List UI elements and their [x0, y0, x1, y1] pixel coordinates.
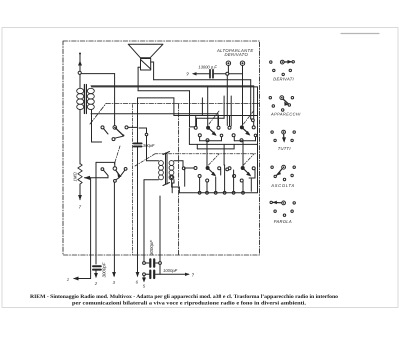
svg-text:300pF: 300pF [143, 143, 155, 148]
position diagram APPARECCHI [269, 96, 294, 111]
T1 primary bottom wire to potentiometer [79, 110, 81, 165]
switch S2 [96, 162, 127, 264]
svg-text:PAROLA: PAROLA [274, 219, 292, 224]
T2 connection wires [139, 128, 185, 262]
capacitor C 300pF [134, 143, 142, 277]
svg-text:DERIVATO: DERIVATO [225, 52, 249, 57]
caption [30, 294, 338, 307]
svg-text:?: ? [186, 72, 189, 78]
wire node A to switch S1 [81, 74, 114, 126]
svg-text:?: ? [192, 272, 195, 277]
svg-text:APPARECCHI: APPARECCHI [270, 112, 301, 117]
switch bank bottom bus [170, 176, 257, 193]
speaker terminals (ALTOPARLANTE DERIVATO) [226, 61, 245, 126]
potentiometer R 1M [78, 162, 115, 200]
speaker wires [138, 62, 253, 119]
svg-text:per comunicazioni bilaterali a: per comunicazioni bilaterali a viva voce… [72, 301, 307, 307]
capacitor C 13000pF [192, 70, 243, 78]
switch S1 [101, 98, 138, 143]
left vertical wires to bottom terminals [73, 178, 116, 281]
transformer T1 [77, 85, 95, 114]
value label 3000pF (right, rotated) [149, 240, 154, 255]
svg-text:ASCOLTA: ASCOLTA [270, 183, 295, 188]
position diagram ASCOLTA [271, 165, 296, 180]
transformer T2 [159, 152, 174, 186]
wafer bottom contact row [198, 170, 251, 194]
svg-text:3000pF: 3000pF [102, 262, 107, 277]
position diagram PAROLA [270, 201, 295, 217]
capacitor C 3000pF (left) [93, 266, 101, 278]
svg-text:DERIVATI: DERIVATI [273, 77, 294, 82]
speaker LS [128, 44, 163, 70]
capacitor C 1000pF (right pair, bottom) [142, 271, 190, 283]
inner unit dashed border [90, 104, 259, 256]
outer chassis dash-dot border [63, 41, 260, 255]
position diagram DERIVATI [270, 60, 295, 76]
position diagram TUTTI [271, 130, 296, 143]
long wires from T1 secondary into switch unit [91, 86, 258, 193]
rotary wafer SW-D (bottom-right) [228, 166, 255, 182]
antenna terminal [78, 53, 82, 89]
mechanical coupling dash-dot lines [114, 105, 256, 255]
wire T1 secondary bottom to S2 [92, 110, 102, 142]
rotary wafer SW-A (top-left) [194, 126, 220, 142]
value label 3000pF (left, rotated) [102, 262, 107, 277]
header rule fragment [341, 33, 379, 35]
svg-text:13000 p.F: 13000 p.F [198, 64, 217, 69]
rotary wafer SW-B (top-right) [228, 125, 255, 141]
svg-text:1MΩ: 1MΩ [73, 172, 78, 182]
svg-text:TUTTI: TUTTI [278, 146, 292, 151]
svg-text:5: 5 [143, 284, 146, 289]
value label 1M ohm (rotated) [73, 172, 78, 182]
wafer interconnect wires (upper) [189, 96, 257, 149]
capacitor C 3000pF (right pair, top) [143, 196, 162, 274]
svg-text:1: 1 [67, 277, 69, 282]
rotary wafer SW-C (bottom-left) [194, 166, 221, 182]
svg-text:RIEM - Sintonaggio Radio mod.: RIEM - Sintonaggio Radio mod. Multivox -… [30, 294, 338, 300]
wafer interconnect wires (lower) [185, 142, 255, 192]
svg-text:1000pF: 1000pF [163, 268, 178, 273]
svg-text:2: 2 [94, 281, 98, 286]
svg-text:3000pF: 3000pF [149, 240, 154, 255]
svg-text:7: 7 [79, 205, 82, 210]
svg-text:6: 6 [136, 280, 139, 285]
svg-text:3: 3 [113, 280, 116, 285]
switch bank top bus [174, 116, 258, 127]
